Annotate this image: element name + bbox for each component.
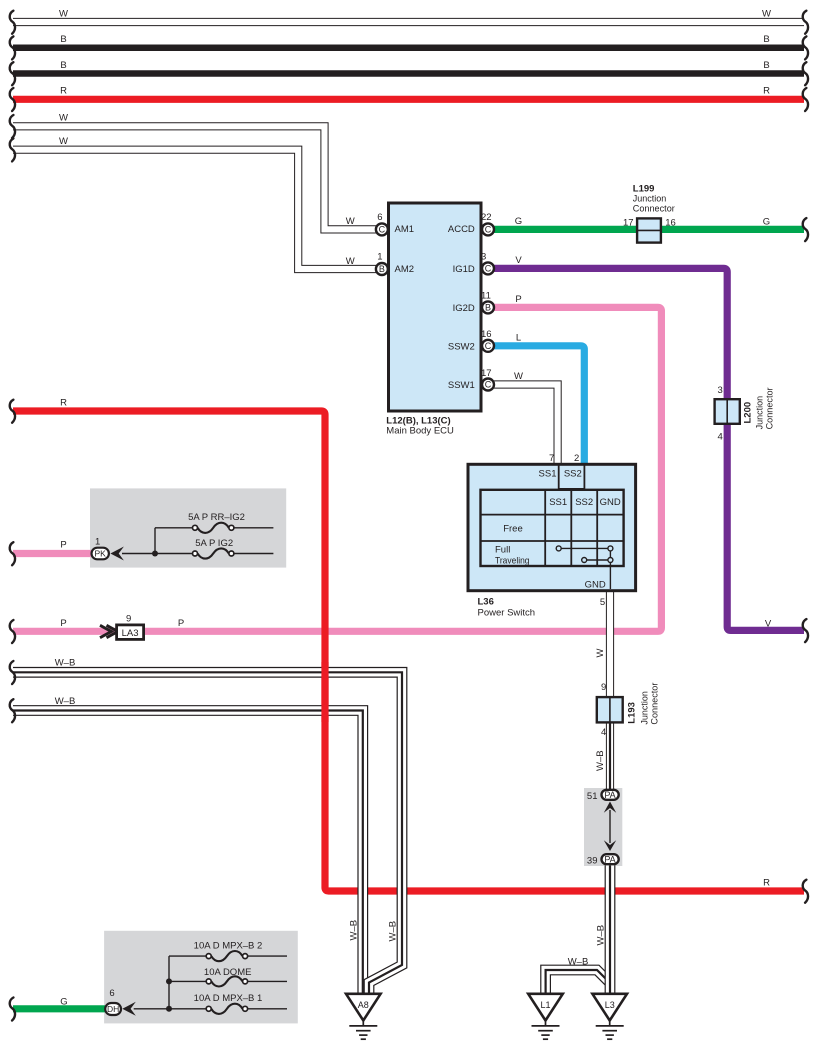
svg-text:16: 16 <box>665 218 676 229</box>
svg-text:10A DOME: 10A DOME <box>204 967 252 978</box>
fuse 5A P RR-IG2 row <box>155 527 192 529</box>
junction connector L193 <box>597 697 623 722</box>
svg-text:P: P <box>60 618 66 629</box>
svg-text:5: 5 <box>600 597 605 608</box>
fuse 10A DOME row <box>169 980 206 982</box>
power switch contact SS2-GND <box>584 559 610 561</box>
svg-text:Full: Full <box>495 545 510 556</box>
svg-text:1: 1 <box>95 537 100 548</box>
svg-text:7: 7 <box>549 453 554 464</box>
svg-text:17: 17 <box>623 218 634 229</box>
ECU pin ACCD (22,C) <box>482 223 494 235</box>
wire R top horizontal <box>13 96 804 103</box>
power switch GND internal wire <box>609 551 611 589</box>
wire B second horizontal <box>13 70 804 77</box>
wire G bottom stub to DH <box>13 1005 105 1012</box>
arrow into PK <box>110 547 124 561</box>
svg-text:IG2D: IG2D <box>453 303 475 314</box>
svg-text:W–B: W–B <box>388 921 399 942</box>
svg-text:4: 4 <box>718 431 723 442</box>
svg-text:SSW2: SSW2 <box>448 342 475 353</box>
svg-text:W: W <box>346 216 355 227</box>
wire W to ECU pin AM1 <box>13 126 376 229</box>
fuse block gray box (10A fuses) <box>104 931 298 1024</box>
chevron marks before LA3 <box>100 625 111 637</box>
branch line and junction dot in 5A fuse box <box>154 528 156 554</box>
wire W from power switch GND down to L193 then W-B to PA <box>606 589 614 790</box>
svg-text:2: 2 <box>574 453 579 464</box>
svg-text:W: W <box>59 113 68 124</box>
wire W-B branch from L3 wire to ground L1 <box>546 970 610 994</box>
svg-text:9: 9 <box>601 682 606 693</box>
svg-text:C: C <box>485 341 492 351</box>
svg-text:6: 6 <box>109 988 114 999</box>
svg-text:1: 1 <box>377 252 382 263</box>
svg-text:G: G <box>515 216 522 227</box>
wire R vertical patch over W-B horizontals <box>321 662 328 722</box>
connector LA3 box <box>117 625 144 640</box>
ground A8 <box>346 994 381 1021</box>
power switch terminal slot dividers SS1/SS2 <box>558 464 560 490</box>
svg-text:AM1: AM1 <box>395 224 415 235</box>
svg-text:C: C <box>485 225 492 235</box>
PA pass-through gray box <box>584 788 622 866</box>
svg-text:P: P <box>60 540 66 551</box>
ECU pin IG2D (11,B) <box>482 301 494 313</box>
svg-text:SS2: SS2 <box>575 497 593 508</box>
svg-text:Connector: Connector <box>650 683 661 725</box>
ECU pin SSW1 (17,C) <box>482 379 494 391</box>
svg-text:R: R <box>763 878 770 889</box>
svg-text:IG1D: IG1D <box>453 264 475 275</box>
svg-text:W: W <box>59 8 68 19</box>
svg-text:3: 3 <box>481 252 486 263</box>
ground L1 <box>528 994 563 1021</box>
wire G from ACCD to right edge <box>494 226 804 233</box>
connector PA (39) <box>602 854 619 864</box>
svg-text:A8: A8 <box>358 1000 369 1010</box>
svg-text:R: R <box>60 398 67 409</box>
wire-break symbols right edge <box>803 11 808 34</box>
wire P from IG2D down and across to left edge <box>13 307 661 631</box>
svg-text:SS1: SS1 <box>549 497 567 508</box>
svg-text:10A D MPX–B 2: 10A D MPX–B 2 <box>194 941 263 952</box>
ECU pin AM1 (6,C) <box>376 223 388 235</box>
svg-text:L3: L3 <box>605 1000 615 1010</box>
svg-text:Connector: Connector <box>633 204 675 215</box>
wire W-B upper horizontal to ground A8 <box>13 672 402 993</box>
svg-text:9: 9 <box>126 613 131 624</box>
svg-text:17: 17 <box>481 368 492 379</box>
svg-text:W: W <box>762 8 771 19</box>
junction connector L200 <box>715 399 740 424</box>
junction connector L199 <box>637 218 661 242</box>
PA pass-through: line and arrows <box>609 810 611 843</box>
svg-text:GND: GND <box>585 579 606 590</box>
svg-text:6: 6 <box>377 212 382 223</box>
svg-text:B: B <box>763 60 769 71</box>
svg-text:10A D MPX–B 1: 10A D MPX–B 1 <box>194 993 263 1004</box>
wire W to ECU pin AM2 <box>13 150 376 269</box>
svg-text:C: C <box>379 225 386 235</box>
connector PA (51) <box>602 790 619 800</box>
svg-text:GND: GND <box>600 497 621 508</box>
wire L from SSW2 to power switch <box>494 346 584 465</box>
svg-text:Main Body ECU: Main Body ECU <box>386 426 454 437</box>
svg-text:W: W <box>346 256 355 267</box>
svg-text:PA: PA <box>604 790 615 800</box>
wire W-B lower horizontal to ground A8 <box>13 711 363 994</box>
svg-text:B: B <box>763 34 769 45</box>
fuse 5A P IG2 row <box>122 553 192 555</box>
fuse 10A D MPX-B 2 row <box>169 955 206 957</box>
branch line and junction dots in 10A fuse box <box>168 956 170 1009</box>
svg-text:B: B <box>60 60 66 71</box>
ECU pin IG1D (3,C) <box>482 262 494 274</box>
connector PK (1) <box>92 548 109 560</box>
svg-text:P: P <box>178 618 184 629</box>
arrow into DH <box>122 1002 136 1016</box>
svg-text:P: P <box>515 294 521 305</box>
wire P stub to PK <box>13 550 91 557</box>
svg-text:22: 22 <box>481 212 492 223</box>
svg-text:V: V <box>515 255 522 266</box>
svg-text:PK: PK <box>95 549 107 559</box>
svg-text:51: 51 <box>587 791 598 802</box>
fuse block gray box (5A fuses) <box>90 488 286 567</box>
svg-text:G: G <box>60 996 67 1007</box>
wire R main: left edge, down, across bottom <box>13 411 804 891</box>
wire W-B from PA down to ground L3 <box>605 866 616 994</box>
svg-text:L: L <box>516 332 521 343</box>
svg-text:W–B: W–B <box>55 658 76 669</box>
svg-text:R: R <box>60 86 67 97</box>
svg-text:SS1: SS1 <box>539 468 557 479</box>
svg-text:5A P IG2: 5A P IG2 <box>195 538 233 549</box>
svg-text:B: B <box>485 303 491 313</box>
svg-text:SSW1: SSW1 <box>448 380 475 391</box>
wire W top horizontal <box>13 18 804 26</box>
wire V from IG1D down right side <box>494 268 804 630</box>
svg-text:4: 4 <box>601 727 606 738</box>
wire W from SSW1 to power switch <box>494 385 558 466</box>
svg-text:SS2: SS2 <box>564 468 582 479</box>
svg-text:W–B: W–B <box>596 925 607 946</box>
svg-text:Traveling: Traveling <box>495 556 530 567</box>
svg-text:Free: Free <box>503 524 523 535</box>
svg-text:B: B <box>379 264 385 274</box>
svg-text:Power Switch: Power Switch <box>478 607 536 618</box>
svg-text:AM2: AM2 <box>395 264 415 275</box>
power switch box L36 <box>468 464 636 590</box>
main body ECU box L12(B),L13(C) <box>389 203 482 411</box>
svg-text:W–B: W–B <box>349 920 360 941</box>
svg-text:W: W <box>59 136 68 147</box>
svg-text:G: G <box>763 217 770 228</box>
svg-text:5A P RR–IG2: 5A P RR–IG2 <box>188 512 245 523</box>
svg-text:W–B: W–B <box>568 957 589 968</box>
svg-text:LA3: LA3 <box>122 628 139 639</box>
power switch inner contact table <box>481 490 624 566</box>
svg-text:W–B: W–B <box>595 750 606 771</box>
svg-text:W: W <box>595 649 606 658</box>
svg-text:V: V <box>765 618 772 629</box>
ECU pin SSW2 (16,C) <box>482 340 494 352</box>
svg-text:ACCD: ACCD <box>448 224 475 235</box>
svg-text:W: W <box>514 371 523 382</box>
svg-text:39: 39 <box>587 855 598 866</box>
wire-break symbols left edge <box>10 11 15 34</box>
fuse 10A D MPX-B 1 row <box>134 1008 206 1010</box>
wire B first horizontal <box>13 44 804 51</box>
svg-text:R: R <box>763 86 770 97</box>
svg-text:16: 16 <box>481 329 492 340</box>
svg-text:L193: L193 <box>627 702 638 724</box>
connector DH (6) <box>105 1003 121 1015</box>
ECU pin AM2 (1,B) <box>376 263 388 275</box>
svg-text:DH: DH <box>107 1004 119 1014</box>
ground L3 <box>592 994 627 1021</box>
svg-text:C: C <box>485 380 492 390</box>
svg-text:B: B <box>60 34 66 45</box>
svg-text:C: C <box>485 264 492 274</box>
svg-text:L36: L36 <box>478 596 494 607</box>
svg-text:PA: PA <box>604 855 615 865</box>
svg-text:L1: L1 <box>540 1000 550 1010</box>
svg-text:W–B: W–B <box>55 696 76 707</box>
svg-text:11: 11 <box>481 291 491 302</box>
svg-text:3: 3 <box>718 385 723 396</box>
svg-text:L200: L200 <box>743 402 754 424</box>
power switch contact SS1-GND <box>559 547 611 549</box>
svg-text:Connector: Connector <box>765 387 776 429</box>
